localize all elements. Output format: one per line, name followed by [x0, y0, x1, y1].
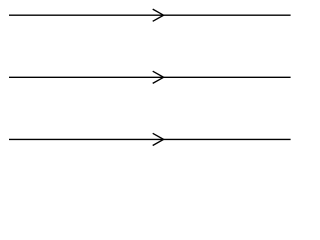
wire: top horizontal flow line [9, 14, 291, 16]
wire: bottom arrowhead (right-pointing chevron) [153, 133, 164, 145]
wire: middle horizontal flow line [9, 76, 291, 78]
wire: top arrowhead (right-pointing chevron) [153, 9, 164, 21]
wire: middle arrowhead (right-pointing chevron) [153, 71, 164, 83]
wire: bottom horizontal flow line [9, 138, 291, 140]
